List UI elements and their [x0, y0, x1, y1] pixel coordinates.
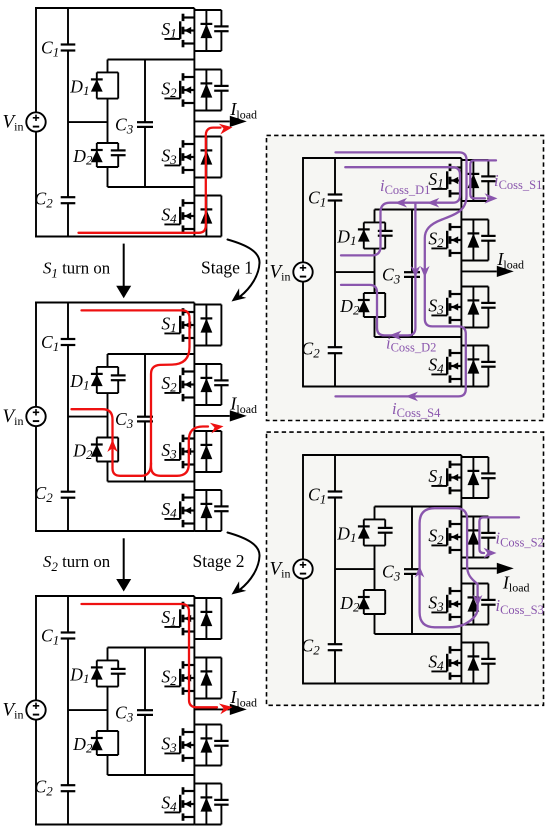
red arrowhead at I_load (circuit B): [210, 423, 224, 434]
wire: S3-S4 link (circuit A): [193, 178, 195, 196]
diode D1 (circuit C): [69, 660, 125, 686]
body diode of S1 (circuit A): [205, 10, 207, 51]
wire: mid node C1C2 to D1D2 (circuit B): [68, 416, 108, 418]
capacitor C1 (circuit A): [60, 45, 76, 51]
capacitor C1 (circuit B): [60, 339, 76, 345]
wire: lower junction rail S3S4 node (circuit B): [108, 481, 195, 483]
output arrow I_load (stage 1 box): [461, 249, 524, 277]
wire: D branch verticals (circuit A): [107, 60, 109, 73]
wire: D branch verticals (circuit B): [107, 354, 109, 367]
purple arrowhead down on D2 branch (stage 1 box): [411, 266, 421, 278]
arrow: S1 turn on transition: [123, 244, 125, 287]
wire: C3 branch (circuit A): [144, 60, 146, 123]
transistor S2 (circuit C): [161, 658, 221, 699]
capacitor C1 (stage 2 box): [327, 492, 343, 498]
wire: S3-S4 link (circuit C): [193, 766, 195, 784]
diode D1 (stage 2 box): [336, 519, 392, 545]
wire: C1-C2 branch (stage 2 box): [334, 455, 336, 684]
body diode of S2 (circuit C): [205, 658, 207, 699]
capacitor C2 (stage 2 box): [327, 644, 343, 650]
wire: top rail (circuit C): [35, 595, 194, 597]
wire: drain stub S1 (circuit C): [193, 596, 195, 598]
transistor S4 (stage 2 box): [428, 643, 495, 684]
body diode of S4 (stage 2 box): [472, 643, 474, 684]
purple arrowhead i_Coss_S1 (stage 1 box): [485, 193, 498, 203]
purple path i_Coss_D2 branch (stage 1 box): [341, 203, 415, 336]
body diode of S2 (stage 1 box): [472, 220, 474, 261]
dashed frame: Stage 2 equivalent circuit box: [267, 432, 544, 705]
capacitor C2 (stage 1 box): [327, 347, 343, 353]
transistor S1 (circuit C): [161, 598, 221, 639]
arrow: S2 turn on transition: [123, 538, 125, 580]
wire: S2-S3 link / output node (circuit C): [193, 699, 195, 725]
wire: S1-S2 link (circuit C): [193, 639, 195, 658]
wire: upper junction rail S1S2 node (circuit B): [108, 353, 195, 355]
voltage source V_in (circuit A): [3, 112, 46, 134]
wire: lower junction rail S3S4 node (circuit C): [108, 774, 195, 776]
wire: C3 branch (stage 1 box): [411, 210, 413, 273]
transistor S4 (stage 1 box): [428, 346, 495, 387]
wire: upper junction rail S1S2 node (circuit C): [108, 647, 195, 649]
purple path i_Coss_S1 exit loop (stage 1 box): [470, 160, 496, 198]
wire: S1-S2 link (stage 2 box): [460, 498, 462, 517]
wire: left rail with V_in (stage 2 box): [302, 455, 304, 684]
voltage source V_in (stage 1 box): [270, 262, 313, 284]
wire: mid node C1C2 to D1D2 (stage 1 box): [335, 271, 375, 273]
output arrow I_load (circuit B): [194, 394, 257, 422]
red arrowhead at I_load (circuit C): [219, 704, 233, 715]
capacitor C3 (stage 2 box): [404, 568, 420, 570]
diode D2 (circuit A): [72, 143, 125, 168]
capacitor Coss of S1 (circuit A): [214, 25, 228, 27]
diode D1 (circuit A): [69, 72, 118, 98]
capacitor of D1 (stage 2 box): [378, 527, 393, 529]
wire: upper junction rail S1S2 node (stage 1 box): [375, 209, 462, 211]
wire: D branch verticals (stage 1 box): [374, 210, 376, 223]
body diode of S3 (circuit B): [205, 431, 207, 472]
wire: S2-S3 link / output node (stage 2 box): [460, 558, 462, 584]
wire: S3-S4 link (stage 1 box): [460, 328, 462, 346]
transistor S4 (circuit B): [161, 490, 228, 531]
transistor S3 (stage 2 box): [428, 584, 495, 625]
capacitor of D2 (circuit A): [111, 149, 126, 151]
red current path: bottom rail up through S4,S3 diodes to I_load (circuit A): [79, 128, 221, 233]
voltage source V_in (circuit C): [3, 700, 46, 722]
wire: upper junction rail S1S2 node (circuit A): [108, 59, 195, 61]
wire: C1-C2 branch (circuit A): [67, 8, 69, 237]
wire: C1-C2 branch (stage 1 box): [334, 158, 336, 387]
body diode of S4 (circuit C): [205, 784, 207, 825]
transistor S3 (circuit A): [161, 137, 221, 178]
purple path i_Coss_S2 (stage 2 box): [479, 517, 519, 553]
wire: S3-S4 link (circuit B): [193, 472, 195, 490]
svg-text:Stage 2: Stage 2: [193, 551, 245, 571]
capacitor C3 (circuit C): [137, 709, 153, 711]
transistor S4 (circuit A): [161, 196, 221, 237]
wire: bottom rail (circuit B): [35, 530, 194, 532]
red current path: top rail through S1,S2 to I_load (circuit C): [82, 604, 218, 707]
diode D2 (stage 2 box): [339, 590, 385, 615]
purple arrowhead down into S3 (stage 2 box): [473, 595, 483, 607]
wire: lower junction rail S3S4 node (stage 2 box): [375, 633, 462, 635]
capacitor Coss of S3 (stage 1 box): [481, 302, 495, 304]
purple arrowhead up toward C3 (stage 2 box): [415, 566, 425, 578]
capacitor Coss of S3 (circuit C): [214, 740, 228, 742]
dashed frame: Stage 1 equivalent circuit box: [267, 135, 544, 420]
purple arrowhead left into D2 (stage 1 box): [389, 331, 402, 341]
body diode of S3 (circuit C): [205, 725, 207, 766]
body diode of S3 (stage 1 box): [472, 287, 474, 328]
transistor S2 (stage 1 box): [428, 220, 495, 261]
capacitor Coss of S2 (circuit A): [214, 85, 228, 87]
transistor S3 (circuit B): [161, 431, 221, 472]
wire: top rail (stage 2 box): [302, 454, 461, 456]
body diode of S2 (stage 2 box): [472, 517, 474, 558]
wire: top rail (circuit A): [35, 7, 194, 9]
wire: S1-S2 link (stage 1 box): [460, 201, 462, 220]
wire: C3 branch (circuit C): [144, 648, 146, 711]
capacitor Coss of S4 (circuit B): [214, 505, 228, 507]
body diode of S2 (circuit A): [205, 70, 207, 111]
capacitor C2 (circuit A): [60, 197, 76, 203]
transistor S2 (circuit B): [161, 364, 228, 405]
transistor S3 (stage 1 box): [428, 287, 495, 328]
red arrowhead up through D2 (circuit B): [107, 440, 117, 453]
body diode of S1 (stage 1 box): [472, 160, 474, 201]
output arrow I_load (circuit C): [194, 687, 257, 715]
capacitor Coss of S1 (stage 1 box): [481, 175, 495, 177]
purple path i_Coss_S1 feeder line (stage 1 box): [336, 152, 467, 396]
wire: S1-S2 link (circuit B): [193, 346, 195, 365]
capacitor of D1 (circuit C): [111, 668, 126, 670]
capacitor C1 (circuit C): [60, 633, 76, 639]
wire: S2-S3 link / output node (circuit A): [193, 111, 195, 137]
body diode of S3 (circuit A): [205, 137, 207, 178]
wire: C1-C2 branch (circuit C): [67, 596, 69, 825]
capacitor C3 (stage 1 box): [404, 271, 420, 273]
capacitor C2 (circuit B): [60, 492, 76, 498]
capacitor Coss of S2 (circuit B): [214, 379, 228, 381]
purple path i_Coss_D1 line through S1 (stage 1 box): [341, 167, 460, 255]
wire: D branch verticals (stage 2 box): [374, 507, 376, 520]
body diode of S1 (stage 2 box): [472, 457, 474, 498]
diode D1 (circuit B): [69, 367, 125, 393]
wire: drain stub S1 (stage 2 box): [460, 455, 462, 457]
body diode of S4 (stage 1 box): [472, 346, 474, 387]
wire: mid node C1C2 to D1D2 (circuit A): [68, 121, 108, 123]
diode D2 (stage 1 box): [339, 293, 385, 318]
wire: drain stub S1 (circuit B): [193, 303, 195, 305]
body diode of S4 (circuit A): [205, 196, 207, 237]
output arrow I_load (circuit A): [194, 99, 257, 127]
transistor S1 (stage 1 box): [428, 160, 495, 201]
capacitor Coss of S2 (stage 1 box): [481, 235, 495, 237]
body diode of S2 (circuit B): [205, 364, 207, 405]
wire: S1-S2 link (circuit A): [193, 51, 195, 70]
capacitor of D1 (stage 1 box): [378, 230, 393, 232]
red arrowhead at I_load (circuit A): [219, 124, 233, 135]
wire: C3 branch (stage 2 box): [411, 507, 413, 570]
wire: left rail with V_in (circuit B): [35, 303, 37, 532]
capacitor C1 (stage 1 box): [327, 195, 343, 201]
transistor S2 (circuit A): [161, 70, 228, 111]
wire: lower junction rail S3S4 node (circuit A): [108, 186, 195, 188]
wire: upper junction rail S1S2 node (stage 2 box): [375, 506, 462, 508]
capacitor C3 (circuit A): [137, 121, 153, 123]
red current path: S1 through C3 branch to S3 and I_load (circuit B): [82, 310, 209, 475]
voltage source V_in (stage 2 box): [270, 559, 313, 581]
curved arrow into Stage 2 box: [228, 533, 260, 590]
transistor S1 (circuit A): [161, 10, 228, 51]
wire: drain stub S1 (stage 1 box): [460, 158, 462, 160]
diode D2 (circuit B): [72, 438, 118, 463]
capacitor C3 (circuit B): [137, 416, 153, 418]
wire: drain stub S1 (circuit A): [193, 8, 195, 10]
transistor S3 (circuit C): [161, 725, 228, 766]
capacitor Coss of S4 (stage 2 box): [481, 658, 495, 660]
wire: S2-S3 link / output node (circuit B): [193, 405, 195, 431]
red current path: branch through D2 to mid node (circuit B): [72, 409, 152, 476]
diode D2 (circuit C): [72, 731, 118, 756]
capacitor Coss of S3 (stage 2 box): [481, 599, 495, 601]
wire: bottom rail (stage 1 box): [302, 386, 461, 388]
voltage source V_in (circuit B): [3, 406, 46, 428]
svg-text:Stage 1: Stage 1: [201, 258, 253, 278]
diode D1 (stage 1 box): [336, 222, 392, 248]
purple arrowhead left on i_Coss_S4 line (stage 1 box): [406, 392, 419, 402]
output arrow I_load (stage 2 box): [461, 563, 529, 595]
wire: mid node C1C2 to D1D2 (stage 2 box): [335, 568, 375, 570]
wire: top rail (circuit B): [35, 302, 194, 304]
body diode of S1 (circuit B): [205, 305, 207, 346]
purple arrowhead i_Coss_S2 (stage 2 box): [484, 548, 497, 558]
capacitor Coss of S1 (stage 2 box): [481, 472, 495, 474]
wire: left rail with V_in (circuit C): [35, 596, 37, 825]
wire: left rail with V_in (stage 1 box): [302, 158, 304, 387]
wire: C3 branch (circuit B): [144, 354, 146, 417]
capacitor of D1 (circuit B): [111, 374, 126, 376]
body diode of S3 (stage 2 box): [472, 584, 474, 625]
capacitor C2 (circuit C): [60, 785, 76, 791]
wire: C1-C2 branch (circuit B): [67, 303, 69, 532]
transistor S1 (circuit B): [161, 305, 221, 346]
purple arrowheads left on i_Coss_D1 (stage 1 box): [395, 198, 408, 208]
wire: bottom rail (circuit A): [35, 236, 194, 238]
transistor S1 (stage 2 box): [428, 457, 495, 498]
body diode of S4 (circuit B): [205, 490, 207, 531]
transistor S4 (circuit C): [161, 784, 228, 825]
purple loop C3-S2-S3 (stage 2 box): [420, 508, 478, 627]
capacitor Coss of S4 (stage 1 box): [481, 361, 495, 363]
wire: S2-S3 link / output node (stage 1 box): [460, 261, 462, 287]
purple arrowhead down beside C3 right (stage 1 box): [420, 266, 430, 278]
transistor S2 (stage 2 box): [428, 517, 495, 558]
wire: lower junction rail S3S4 node (stage 1 box): [375, 336, 462, 338]
curved arrow into Stage 1 box: [228, 240, 260, 297]
wire: mid node C1C2 to D1D2 (circuit C): [68, 709, 108, 711]
wire: top rail (stage 1 box): [302, 157, 461, 159]
wire: S3-S4 link (stage 2 box): [460, 625, 462, 643]
wire: bottom rail (stage 2 box): [302, 683, 461, 685]
wire: left rail with V_in (circuit A): [35, 8, 37, 237]
wire: D branch verticals (circuit C): [107, 648, 109, 661]
capacitor Coss of S4 (circuit C): [214, 799, 228, 801]
wire: bottom rail (circuit C): [35, 824, 194, 826]
capacitor Coss of S2 (stage 2 box): [481, 532, 495, 534]
body diode of S1 (circuit C): [205, 598, 207, 639]
